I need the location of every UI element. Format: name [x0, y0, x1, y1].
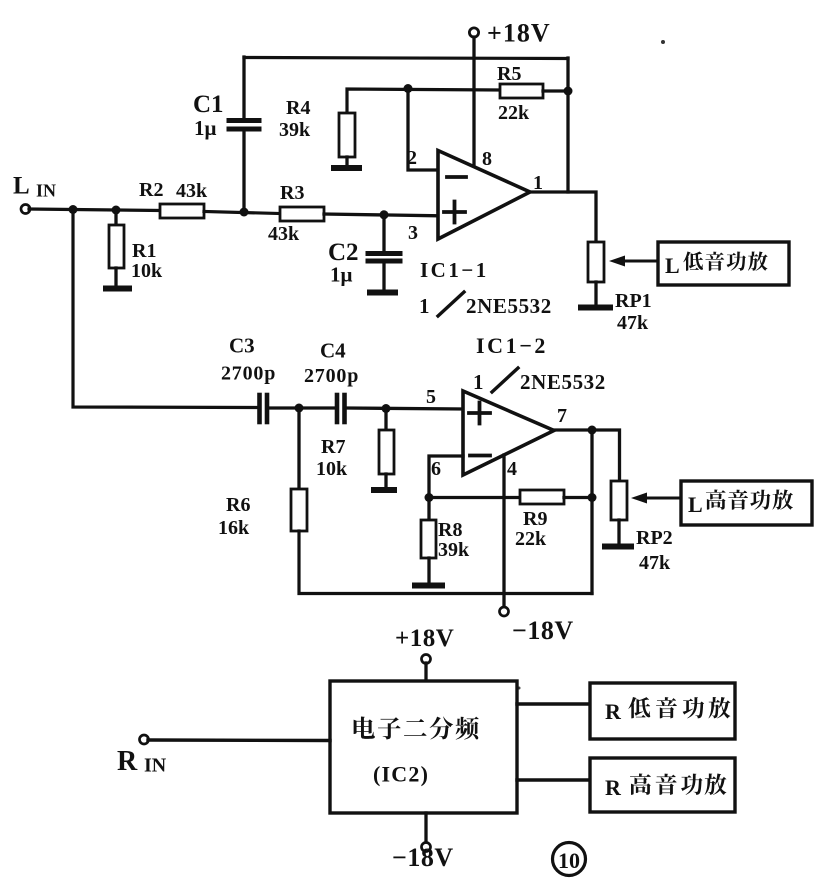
node junction at x=384 (C2 tap) — [380, 210, 389, 219]
svg-text:39k: 39k — [438, 539, 470, 561]
svg-text:IN: IN — [144, 755, 167, 777]
svg-text:+18V: +18V — [395, 625, 454, 652]
power -18V terminal (IC2) — [422, 843, 431, 852]
wire: C1 bottom lead — [242, 131, 245, 212]
svg-text:RP1: RP1 — [615, 290, 652, 312]
ground below R7 — [374, 487, 394, 493]
svg-text:R: R — [117, 746, 138, 777]
node junction pin6 net — [425, 493, 434, 502]
op-amp minus input marking — [470, 454, 490, 458]
svg-text:IC1−2: IC1−2 — [476, 333, 548, 358]
svg-text:47k: 47k — [617, 312, 649, 334]
wire: L IN to R2 — [29, 209, 160, 211]
resistor R1 body — [109, 225, 124, 268]
svg-text:10k: 10k — [131, 260, 163, 282]
op-amp plus input marking — [444, 202, 465, 223]
RP1 wiper arrow — [624, 260, 658, 263]
svg-text:−18V: −18V — [512, 616, 574, 645]
svg-text:39k: 39k — [279, 119, 311, 141]
resistor R8 body — [421, 520, 436, 558]
svg-text:10k: 10k — [316, 458, 348, 480]
RP2 wiper arrow — [646, 497, 682, 500]
output block R treble amp box — [590, 758, 735, 812]
node R IN input terminal — [140, 735, 149, 744]
wire: IC2 to R bass box — [517, 702, 590, 705]
op-amp minus input marking — [447, 175, 466, 179]
capacitor C3 plates — [257, 395, 262, 422]
potentiometer RP2 body — [611, 481, 627, 520]
svg-text:2700p: 2700p — [221, 363, 276, 385]
wire: C2 top lead — [382, 215, 385, 252]
wire: R8 top lead — [427, 497, 430, 520]
svg-text:L: L — [665, 253, 680, 278]
wire: feedback rail output down to bottom rail — [590, 430, 593, 594]
node junction at x=116 (R1 tap) — [112, 206, 121, 215]
svg-text:3: 3 — [408, 222, 418, 244]
node L IN input terminal — [21, 205, 30, 214]
svg-text:R7: R7 — [321, 436, 345, 458]
power -18V terminal (upper section) — [500, 607, 509, 616]
wire: RP2 bottom lead — [617, 520, 620, 544]
output block L treble amp box — [681, 481, 812, 525]
wire: R7 top lead — [384, 409, 387, 431]
svg-text:10: 10 — [558, 848, 580, 873]
node junction R9 right — [588, 493, 597, 502]
svg-text:7: 7 — [557, 405, 567, 427]
wire: R IN to IC2 — [148, 738, 330, 742]
wire: R1 top lead — [114, 210, 117, 225]
wire: pin6 node to R9 — [429, 496, 520, 499]
svg-text:L: L — [688, 492, 703, 517]
svg-text:22k: 22k — [498, 102, 530, 124]
node junction at x=386 (R7 tap) — [382, 404, 391, 413]
svg-text:16k: 16k — [218, 517, 250, 539]
svg-text:R: R — [605, 775, 622, 800]
svg-text:8: 8 — [482, 148, 492, 170]
wire: R2 to R3 — [204, 212, 280, 214]
wire: top feedback rail C1 to output — [244, 58, 568, 59]
svg-text:+18V: +18V — [487, 19, 551, 48]
svg-text:RP2: RP2 — [636, 527, 673, 549]
wire: IC2 to R treble box — [517, 778, 590, 781]
wire: C2 bottom lead — [382, 264, 385, 291]
resistor R5 body — [500, 84, 543, 98]
svg-text:5: 5 — [426, 386, 436, 408]
wire: input branch down and to C3 — [73, 210, 258, 408]
node junction at x=73 (to HPF branch) — [69, 205, 78, 214]
svg-text:C4: C4 — [320, 339, 346, 363]
resistor R2 body — [160, 204, 204, 218]
op-amp U2 IC1-2 triangle — [463, 391, 554, 475]
wire: R9 right lead — [564, 496, 592, 499]
svg-text:R4: R4 — [286, 97, 310, 119]
svg-text:R8: R8 — [438, 519, 462, 541]
resistor R6 body — [291, 489, 307, 531]
svg-text:R6: R6 — [226, 494, 250, 516]
node junction R5 right — [564, 87, 573, 96]
svg-text:IC1−1: IC1−1 — [420, 258, 489, 282]
wire: C4 to op-amp pin 5 — [347, 408, 463, 409]
svg-text:2700p: 2700p — [304, 365, 359, 387]
svg-text:R5: R5 — [497, 63, 521, 85]
svg-text:L: L — [13, 173, 30, 200]
resistor R7 body — [379, 430, 394, 474]
svg-text:2: 2 — [407, 147, 417, 169]
node junction at x=299 (R6 tap) — [295, 404, 304, 413]
svg-text:2NE5532: 2NE5532 — [520, 370, 606, 394]
output block R bass amp box — [590, 683, 735, 739]
wire: R1 bottom lead — [114, 268, 117, 287]
wire: R4 top lead and rail to R5 — [347, 89, 500, 113]
resistor R9 body — [520, 490, 564, 504]
ground below C2 — [370, 290, 395, 296]
potentiometer RP1 body — [588, 242, 604, 282]
svg-text:R1: R1 — [132, 240, 156, 262]
ground below R4 — [334, 165, 359, 171]
svg-text:43k: 43k — [268, 223, 300, 245]
svg-text:6: 6 — [431, 458, 441, 480]
svg-text:1μ: 1μ — [330, 263, 353, 287]
block IC2 electronic crossover box — [330, 681, 517, 813]
svg-text:R9: R9 — [523, 508, 547, 530]
ground below RP1 — [581, 305, 610, 311]
svg-text:43k: 43k — [176, 180, 208, 202]
svg-text:R3: R3 — [280, 182, 304, 204]
svg-text:R: R — [605, 699, 622, 724]
svg-text:1: 1 — [419, 294, 430, 318]
svg-text:47k: 47k — [639, 552, 671, 574]
wire: R4 bottom lead — [345, 157, 348, 166]
wire: R5 right lead — [543, 89, 568, 92]
wire: +18V down to pin 8 — [472, 37, 475, 168]
svg-text:IN: IN — [36, 181, 56, 201]
wire: C1 top lead up to feedback rail — [242, 57, 245, 118]
wire: R3 to op-amp pin 3 — [324, 214, 438, 216]
svg-text:C3: C3 — [229, 334, 255, 358]
wire: +18V into IC2 — [424, 663, 427, 681]
ground below R8 — [415, 583, 442, 589]
ink speck — [661, 40, 665, 44]
svg-text:22k: 22k — [515, 528, 547, 550]
wire: op-amp output pin 7 to RP2 — [554, 430, 620, 481]
resistor R4 body — [339, 113, 355, 157]
wire: pin 6 down to feedback node — [429, 456, 463, 497]
capacitor C1 plates — [229, 127, 259, 132]
wire: feedback rail drop to output node — [566, 58, 569, 192]
ink speck — [518, 687, 521, 690]
wire: R6 top lead — [297, 408, 300, 489]
svg-text:4: 4 — [507, 458, 517, 480]
node junction output net — [588, 426, 597, 435]
svg-text:C1: C1 — [193, 91, 224, 118]
svg-text:1: 1 — [473, 370, 484, 394]
wire: R8 bottom lead — [427, 558, 430, 583]
node junction pin2 net on rail — [404, 84, 413, 93]
svg-text:−18V: −18V — [392, 843, 454, 872]
ground below R1 — [106, 286, 129, 292]
svg-text:R2: R2 — [139, 179, 163, 201]
wire: IC2 to -18V — [424, 813, 427, 843]
resistor R3 body — [280, 207, 324, 221]
wire: RP1 bottom lead — [594, 282, 597, 305]
svg-text:1μ: 1μ — [194, 116, 217, 140]
svg-text:2NE5532: 2NE5532 — [466, 294, 552, 318]
figure number 10 in circle — [553, 843, 586, 876]
capacitor C4 plates — [335, 395, 340, 422]
output block L bass amp box — [658, 242, 789, 285]
power +18V terminal — [469, 28, 478, 37]
op-amp U1 IC1-1 triangle — [438, 151, 530, 240]
capacitor C2 plates — [368, 251, 400, 256]
svg-text:(IC2): (IC2) — [373, 762, 429, 787]
node junction at x=244 (C1 tap) — [240, 208, 249, 217]
wire: R6 bottom lead and bottom feedback rail — [299, 531, 592, 594]
wire: R7 bottom lead — [384, 474, 387, 488]
wire: op-amp output to RP1 — [530, 192, 596, 242]
op-amp plus input marking — [469, 403, 490, 424]
wire: C3 to C4 — [269, 406, 335, 409]
wire: pin 4 down to -18V — [502, 455, 505, 607]
wire: rail down to op-amp pin 2 — [408, 89, 438, 171]
ground below RP2 — [605, 544, 631, 550]
